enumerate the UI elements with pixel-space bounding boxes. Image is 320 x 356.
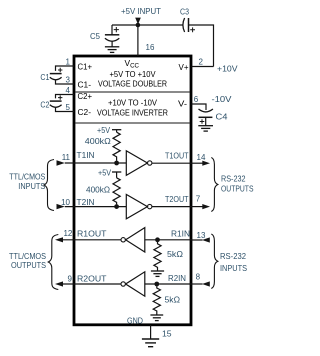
capacitor C1 bbox=[50, 68, 63, 80]
label 5k R1 bbox=[167, 249, 183, 259]
node R2 junction bbox=[154, 282, 159, 287]
svg-text:INPUTS: INPUTS bbox=[220, 263, 247, 273]
pin number 15 bbox=[162, 329, 172, 339]
svg-text:GND: GND bbox=[127, 315, 143, 325]
label +5V T2 bbox=[98, 167, 111, 177]
svg-text:RS-232: RS-232 bbox=[220, 251, 246, 261]
svg-text:C2: C2 bbox=[40, 100, 49, 110]
svg-text:TTL/CMOS: TTL/CMOS bbox=[9, 171, 45, 181]
svg-text:16: 16 bbox=[146, 43, 155, 52]
label T1OUT bbox=[165, 151, 189, 161]
label +5V INPUT bbox=[121, 6, 161, 16]
arrow pin 8 input bbox=[202, 281, 210, 286]
svg-text:C1+: C1+ bbox=[78, 62, 93, 71]
wire pin 3 bbox=[56, 80, 75, 84]
wire pin 6 stub bbox=[192, 104, 207, 110]
arrow pin 13 input bbox=[202, 237, 210, 242]
label TTL/CMOS outputs 1 bbox=[9, 251, 46, 261]
label RS-232 outputs 2 bbox=[221, 184, 254, 194]
label C3 bbox=[180, 7, 189, 17]
label RS-232 inputs 1 bbox=[220, 251, 246, 261]
svg-text:13: 13 bbox=[197, 231, 206, 240]
svg-text:12: 12 bbox=[63, 229, 72, 238]
svg-text:2: 2 bbox=[198, 57, 203, 66]
label +5V T1 bbox=[97, 125, 110, 135]
capacitor C5 bbox=[105, 25, 119, 47]
svg-text:10: 10 bbox=[61, 198, 70, 207]
svg-text:15: 15 bbox=[162, 329, 172, 339]
label +10V bbox=[217, 63, 238, 73]
ground 5k R2 bbox=[150, 315, 163, 321]
label TTL/CMOS inputs 1 bbox=[9, 171, 45, 181]
brace RS-232 outputs bbox=[211, 158, 218, 212]
capacitor C4 bbox=[199, 109, 213, 126]
label -10V bbox=[212, 94, 233, 104]
op-amp driver T1 bbox=[126, 151, 152, 176]
pin number 4 bbox=[66, 86, 71, 95]
svg-text:C1: C1 bbox=[40, 72, 49, 82]
wire pin 2 stub bbox=[192, 66, 214, 68]
pin number 8 bbox=[196, 273, 201, 282]
label GND bbox=[127, 315, 143, 325]
wire pin 1 bbox=[56, 66, 75, 71]
label C2+ pin bbox=[78, 92, 93, 101]
resistor R1 400k bbox=[113, 132, 120, 161]
wire pin 15 bbox=[150, 325, 152, 339]
pin number 9 bbox=[68, 274, 73, 283]
node +5V junction bbox=[136, 23, 141, 28]
wire T1IN bbox=[65, 162, 127, 164]
label R2OUT bbox=[77, 274, 107, 284]
label 5k R2 bbox=[165, 295, 181, 305]
label RS-232 outputs 1 bbox=[221, 173, 246, 183]
node T1 junction bbox=[114, 161, 119, 166]
ground pin 15 bbox=[142, 339, 159, 347]
wire T2OUT bbox=[152, 206, 192, 208]
wire pin 4 bbox=[56, 95, 75, 99]
pin number 16 bbox=[146, 43, 155, 52]
label 400k R2 bbox=[86, 184, 110, 194]
arrow pin 11 input bbox=[57, 160, 65, 165]
svg-text:5kΩ: 5kΩ bbox=[167, 249, 183, 259]
wire +5V rail bbox=[112, 25, 214, 67]
svg-text:INPUTS: INPUTS bbox=[18, 181, 45, 191]
svg-text:VOLTAGE INVERTER: VOLTAGE INVERTER bbox=[97, 109, 168, 118]
label R1IN bbox=[171, 228, 190, 238]
pin number 6 bbox=[194, 95, 199, 104]
label 400k R1 bbox=[85, 136, 111, 146]
label R1OUT bbox=[77, 228, 107, 238]
label T2OUT bbox=[165, 194, 189, 204]
svg-text:+5V: +5V bbox=[98, 167, 111, 177]
arrow pin 12 output bbox=[55, 237, 63, 242]
op-amp receiver R2 bbox=[121, 272, 145, 296]
svg-text:+5V TO +10V: +5V TO +10V bbox=[110, 70, 157, 79]
pin number 14 bbox=[197, 153, 206, 162]
label voltage doubler 2 bbox=[98, 79, 167, 88]
resistor 5k R1 bbox=[154, 242, 161, 271]
pin number 13 bbox=[197, 231, 206, 240]
svg-text:-10V: -10V bbox=[212, 94, 233, 104]
ground C4 bbox=[198, 126, 213, 131]
op-amp receiver R1 bbox=[121, 228, 145, 252]
label V- pin bbox=[178, 100, 187, 109]
IC section divider 1 bbox=[76, 91, 190, 93]
svg-text:5kΩ: 5kΩ bbox=[165, 295, 181, 305]
svg-text:+5V INPUT: +5V INPUT bbox=[121, 6, 161, 16]
wire pin 13 stub bbox=[192, 239, 203, 241]
power +5V T2 pullup bbox=[112, 172, 121, 178]
resistor 5k R2 bbox=[153, 286, 160, 314]
svg-text:VOLTAGE DOUBLER: VOLTAGE DOUBLER bbox=[98, 79, 167, 88]
label T1IN bbox=[77, 150, 95, 160]
resistor R2 400k bbox=[113, 178, 120, 205]
wire R1OUT bbox=[63, 239, 121, 241]
wire pin 14 stub bbox=[192, 162, 204, 164]
arrow pin 10 input bbox=[57, 204, 65, 209]
arrow pin 9 output bbox=[55, 281, 63, 286]
arrow pin 14 output bbox=[202, 161, 210, 166]
power +5V T1 pullup bbox=[112, 130, 121, 133]
label C1- pin bbox=[78, 80, 92, 89]
svg-text:3: 3 bbox=[66, 75, 71, 84]
arrow +5V input bbox=[135, 18, 141, 25]
svg-text:T1IN: T1IN bbox=[77, 150, 95, 160]
svg-text:C3: C3 bbox=[180, 7, 189, 17]
IC U1 body bbox=[74, 56, 191, 325]
label C2- pin bbox=[78, 108, 92, 117]
wire pin 8 stub bbox=[192, 283, 203, 285]
svg-text:8: 8 bbox=[196, 273, 201, 282]
svg-text:C4: C4 bbox=[216, 111, 228, 121]
wire R2OUT bbox=[63, 283, 121, 285]
ground C5 bbox=[105, 47, 119, 53]
label T2IN bbox=[77, 197, 95, 207]
svg-text:T1OUT: T1OUT bbox=[165, 151, 189, 161]
wire R1IN bbox=[145, 239, 192, 241]
svg-text:1: 1 bbox=[66, 57, 71, 66]
node T2 junction bbox=[114, 204, 119, 209]
wire pin 7 stub bbox=[192, 206, 204, 208]
pin number 1 bbox=[66, 57, 71, 66]
brace TTL/CMOS outputs bbox=[48, 235, 58, 290]
svg-text:R2IN: R2IN bbox=[168, 273, 186, 283]
svg-text:4: 4 bbox=[66, 86, 71, 95]
svg-text:+5V: +5V bbox=[97, 125, 110, 135]
label C1 bbox=[40, 72, 49, 82]
label voltage doubler 1 bbox=[110, 70, 157, 79]
svg-text:+10V: +10V bbox=[217, 63, 238, 73]
label RS-232 inputs 2 bbox=[220, 263, 247, 273]
svg-text:R1OUT: R1OUT bbox=[77, 228, 107, 238]
pin number 3 bbox=[66, 75, 71, 84]
wire R2IN bbox=[145, 283, 192, 285]
svg-text:11: 11 bbox=[62, 153, 71, 162]
node R1 junction bbox=[155, 237, 160, 242]
label voltage inverter 1 bbox=[108, 98, 158, 107]
svg-text:9: 9 bbox=[68, 274, 73, 283]
brace TTL/CMOS inputs bbox=[44, 160, 54, 211]
wire T2IN bbox=[65, 206, 127, 208]
pin number 10 bbox=[61, 198, 70, 207]
label voltage inverter 2 bbox=[97, 109, 168, 118]
svg-text:5: 5 bbox=[66, 103, 71, 112]
label V+ pin bbox=[179, 63, 189, 72]
svg-text:OUTPUTS: OUTPUTS bbox=[221, 184, 254, 194]
svg-text:OUTPUTS: OUTPUTS bbox=[11, 260, 46, 270]
label C1+ pin bbox=[78, 62, 93, 71]
wire pin 5 bbox=[56, 108, 75, 112]
label VCC bbox=[125, 58, 140, 69]
svg-text:C5: C5 bbox=[90, 31, 100, 41]
pin number 5 bbox=[66, 103, 71, 112]
label TTL/CMOS inputs 2 bbox=[18, 181, 45, 191]
IC section divider 2 bbox=[76, 122, 190, 124]
svg-text:C2+: C2+ bbox=[78, 92, 93, 101]
svg-text:+10V TO -10V: +10V TO -10V bbox=[108, 98, 158, 107]
pin number 11 bbox=[62, 153, 71, 162]
svg-text:C2-: C2- bbox=[78, 108, 92, 117]
svg-text:V-: V- bbox=[178, 100, 187, 109]
ground 5k R1 bbox=[151, 271, 164, 276]
pin number 12 bbox=[63, 229, 72, 238]
capacitor C2 bbox=[50, 95, 63, 107]
arrow pin 7 output bbox=[202, 204, 210, 209]
svg-text:400kΩ: 400kΩ bbox=[86, 184, 110, 194]
svg-text:R2OUT: R2OUT bbox=[77, 274, 107, 284]
svg-text:RS-232: RS-232 bbox=[221, 173, 246, 183]
svg-text:R1IN: R1IN bbox=[171, 228, 190, 238]
svg-text:T2IN: T2IN bbox=[77, 197, 95, 207]
svg-text:T2OUT: T2OUT bbox=[165, 194, 189, 204]
wire pin 16 VCC bbox=[137, 25, 139, 56]
svg-text:V+: V+ bbox=[179, 63, 189, 72]
wire T1OUT bbox=[152, 162, 192, 164]
label C5 bbox=[90, 31, 100, 41]
label C2 bbox=[40, 100, 49, 110]
brace RS-232 inputs bbox=[211, 234, 218, 289]
pin number 7 bbox=[196, 194, 201, 203]
svg-text:C1-: C1- bbox=[78, 80, 92, 89]
pin number 2 bbox=[198, 57, 203, 66]
label TTL/CMOS outputs 2 bbox=[11, 260, 46, 270]
svg-text:400kΩ: 400kΩ bbox=[85, 136, 111, 146]
label C4 bbox=[216, 111, 228, 121]
capacitor C3 bbox=[183, 18, 195, 32]
svg-text:6: 6 bbox=[194, 95, 199, 104]
svg-text:14: 14 bbox=[197, 153, 206, 162]
label R2IN bbox=[168, 273, 186, 283]
svg-text:7: 7 bbox=[196, 194, 201, 203]
op-amp driver T2 bbox=[126, 194, 152, 218]
